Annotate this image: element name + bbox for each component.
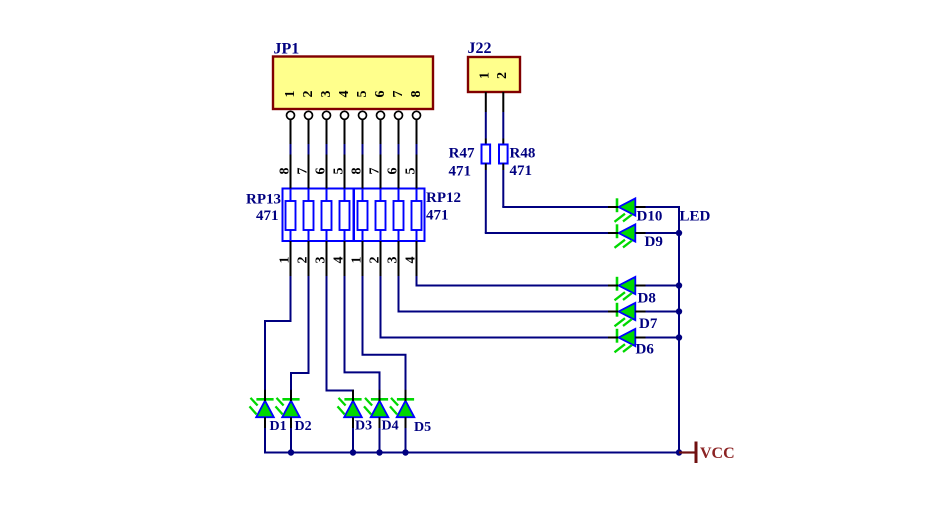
label JP1 [274, 41, 300, 58]
label RP12 [426, 190, 461, 206]
svg-text:RP12: RP12 [426, 190, 461, 206]
svg-text:J22: J22 [468, 40, 492, 57]
svg-text:6: 6 [386, 168, 401, 175]
junction D2/bottom [288, 449, 294, 455]
RP bottom pin numbers 1 2 3 4 1 2 3 4 [278, 257, 419, 264]
wire D9 to bus [646, 232, 680, 234]
svg-text:1: 1 [477, 72, 492, 79]
svg-text:5: 5 [404, 168, 419, 175]
svg-text:4: 4 [332, 257, 347, 264]
bottom horizontal wire [264, 452, 679, 454]
wire D10 to bus [646, 206, 681, 208]
RP top pin numbers 8 7 6 5 8 7 6 5 [278, 168, 419, 175]
label D3 [355, 419, 372, 434]
junction D4/bottom [376, 449, 382, 455]
wire R47 to D9 [485, 170, 608, 233]
connector JP1 [273, 57, 433, 110]
wire RP13.4 to D4 [344, 276, 381, 391]
wire D6 to bus [646, 337, 680, 339]
wire RP13.3 to D3 [326, 276, 355, 392]
value 471 (RP12) [426, 208, 449, 224]
svg-text:RP13: RP13 [246, 192, 281, 208]
JP1 pin numbers 1-8 [283, 91, 424, 98]
svg-text:471: 471 [426, 208, 449, 224]
svg-text:D10: D10 [637, 209, 663, 225]
svg-text:D1: D1 [270, 419, 287, 434]
svg-text:471: 471 [449, 164, 472, 180]
svg-text:D3: D3 [355, 419, 372, 434]
value 471 (R47) [449, 164, 472, 180]
svg-text:LED: LED [680, 209, 711, 225]
label D8 [638, 291, 656, 307]
label D5 [414, 420, 431, 435]
LED D2 [276, 390, 300, 428]
svg-text:5: 5 [355, 91, 370, 98]
junction D6/bus [676, 334, 682, 340]
svg-text:D2: D2 [295, 419, 312, 434]
svg-text:471: 471 [256, 208, 279, 224]
resistor pack RP12 [354, 155, 425, 277]
svg-text:3: 3 [386, 257, 401, 264]
wire D7 to bus [646, 311, 680, 313]
svg-text:D9: D9 [645, 234, 663, 250]
svg-text:6: 6 [373, 91, 388, 98]
LED D9 [608, 224, 646, 248]
LED D4 [364, 390, 388, 428]
junction D5/bottom [402, 449, 408, 455]
label D7 [639, 316, 658, 332]
label D2 [295, 419, 312, 434]
svg-text:7: 7 [296, 168, 311, 175]
LED D5 [390, 390, 414, 428]
LED D7 [608, 303, 646, 327]
junction bus/bottom [676, 449, 682, 455]
svg-text:7: 7 [391, 91, 406, 98]
svg-text:4: 4 [337, 91, 352, 98]
label R47 [449, 146, 475, 162]
wire R48 to D10 [502, 170, 608, 207]
svg-text:8: 8 [409, 91, 424, 98]
svg-text:471: 471 [510, 163, 533, 179]
wire RP12.4 to D8 [416, 276, 609, 286]
wire stubs JP1 to RP [291, 144, 417, 155]
value 471 (RP13) [256, 208, 279, 224]
svg-text:D5: D5 [414, 420, 431, 435]
svg-text:D7: D7 [639, 316, 658, 332]
label D9 [645, 234, 663, 250]
label J22 [468, 40, 492, 57]
svg-text:2: 2 [495, 72, 510, 79]
wire RP13.1 to D1 [264, 276, 292, 391]
svg-text:1: 1 [350, 257, 365, 264]
wire J22 to R47 [485, 112, 487, 145]
svg-text:8: 8 [350, 168, 365, 175]
junction D3/bottom [350, 449, 356, 455]
label D6 [636, 342, 655, 358]
junction D7/bus [676, 308, 682, 314]
svg-text:6: 6 [314, 168, 329, 175]
JP1 pins (circles and leads) [287, 111, 421, 144]
svg-text:VCC: VCC [700, 445, 735, 462]
svg-text:1: 1 [278, 257, 293, 264]
LED D10 [608, 198, 646, 222]
svg-text:R47: R47 [449, 146, 475, 162]
net label LED [680, 209, 711, 225]
svg-text:R48: R48 [510, 146, 536, 162]
LED D3 [338, 390, 362, 428]
wire RP12.2 to D6 [380, 276, 609, 338]
label R48 [510, 146, 536, 162]
value 471 (R48) [510, 163, 533, 179]
LED cathode leads to bottom wire [265, 428, 406, 453]
J22 pin leads [486, 92, 504, 112]
power VCC [679, 442, 735, 464]
svg-text:2: 2 [301, 91, 316, 98]
LED D8 [608, 277, 646, 301]
svg-text:1: 1 [283, 91, 298, 98]
wire RP12.3 to D7 [398, 276, 609, 312]
wire RP12.1 to D5 [362, 276, 407, 391]
svg-text:3: 3 [314, 257, 329, 264]
svg-text:D6: D6 [636, 342, 655, 358]
junction D9/bus [676, 230, 682, 236]
svg-text:2: 2 [296, 257, 311, 264]
svg-text:D8: D8 [638, 291, 656, 307]
label D10 [637, 209, 663, 225]
svg-text:JP1: JP1 [274, 41, 300, 58]
vertical bus wire [678, 206, 680, 453]
wire J22 to R48 [502, 112, 504, 145]
resistor R47 [482, 145, 491, 171]
label D4 [382, 419, 399, 434]
junction D8/bus [676, 282, 682, 288]
svg-text:7: 7 [368, 168, 383, 175]
label D1 [270, 419, 287, 434]
resistor pack RP13 [283, 155, 354, 277]
svg-text:5: 5 [332, 168, 347, 175]
LED D1 [250, 390, 274, 428]
resistor R48 [499, 145, 508, 171]
svg-text:D4: D4 [382, 419, 399, 434]
svg-text:8: 8 [278, 168, 293, 175]
J22 pin numbers 1 2 [477, 72, 510, 79]
svg-text:2: 2 [368, 257, 383, 264]
svg-text:3: 3 [319, 91, 334, 98]
connector J22 [468, 57, 520, 92]
label RP13 [246, 192, 281, 208]
svg-text:4: 4 [404, 257, 419, 264]
wire RP13.2 to D2 [290, 276, 310, 391]
wire D8 to bus [646, 285, 680, 287]
LED D6 [608, 329, 646, 353]
